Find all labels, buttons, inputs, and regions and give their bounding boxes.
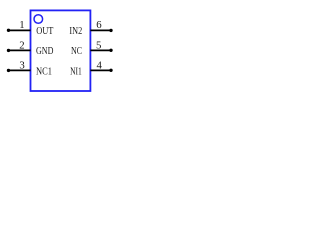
svg-text:NI1: NI1 <box>70 65 82 77</box>
svg-text:GND: GND <box>36 45 54 57</box>
wire pin 1 <box>9 29 31 31</box>
svg-text:2: 2 <box>19 40 24 52</box>
pin-1 indicator circle <box>34 15 43 24</box>
node pin 5 terminal <box>109 49 112 52</box>
svg-text:6: 6 <box>96 19 102 31</box>
svg-text:1: 1 <box>19 19 24 31</box>
node pin 2 terminal <box>7 49 10 52</box>
node pin 3 terminal <box>7 69 10 72</box>
node pin 4 terminal <box>109 69 112 72</box>
wire pin 5 <box>90 49 111 51</box>
svg-text:OUT: OUT <box>36 25 54 37</box>
wire pin 6 <box>90 29 111 31</box>
IC body U1 <box>31 10 91 91</box>
svg-text:4: 4 <box>96 60 102 72</box>
node pin 1 terminal <box>7 29 10 32</box>
svg-text:NC1: NC1 <box>36 65 52 77</box>
wire pin 4 <box>90 69 111 71</box>
wire pin 3 <box>9 69 31 71</box>
node pin 6 terminal <box>109 29 112 32</box>
svg-text:IN2: IN2 <box>69 25 82 37</box>
svg-text:3: 3 <box>19 60 24 72</box>
wire pin 2 <box>9 49 31 51</box>
svg-text:NC: NC <box>71 45 82 57</box>
svg-text:5: 5 <box>96 40 101 52</box>
